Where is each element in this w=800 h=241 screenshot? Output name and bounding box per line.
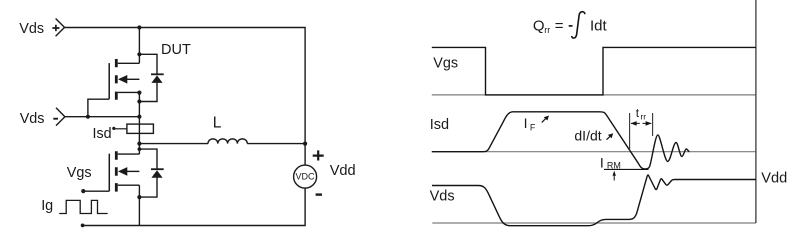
svg-text:Vds: Vds: [19, 21, 44, 37]
svg-text:Vds: Vds: [20, 111, 45, 127]
svg-text:rr: rr: [640, 112, 646, 122]
svg-text:Isd: Isd: [430, 117, 449, 133]
svg-text:Ig: Ig: [41, 198, 53, 214]
svg-text:RM: RM: [607, 160, 621, 170]
svg-text:Q: Q: [533, 18, 545, 35]
svg-text:I: I: [600, 155, 604, 171]
svg-text:Vgs: Vgs: [433, 56, 458, 72]
svg-text:Vds: Vds: [430, 189, 455, 205]
svg-text:F: F: [530, 123, 536, 133]
svg-text:=: =: [555, 17, 564, 34]
svg-text:Vgs: Vgs: [67, 165, 92, 181]
svg-text:rr: rr: [544, 25, 550, 35]
svg-text:Isd: Isd: [93, 126, 112, 142]
svg-text:I: I: [524, 115, 528, 131]
svg-text:Idt: Idt: [590, 17, 608, 34]
svg-text:VDC: VDC: [295, 172, 315, 182]
svg-text:L: L: [213, 115, 222, 132]
svg-text:dI/dt: dI/dt: [574, 128, 601, 144]
svg-text:DUT: DUT: [161, 42, 191, 58]
svg-text:Vdd: Vdd: [330, 163, 356, 179]
svg-text:Vdd: Vdd: [761, 171, 787, 187]
